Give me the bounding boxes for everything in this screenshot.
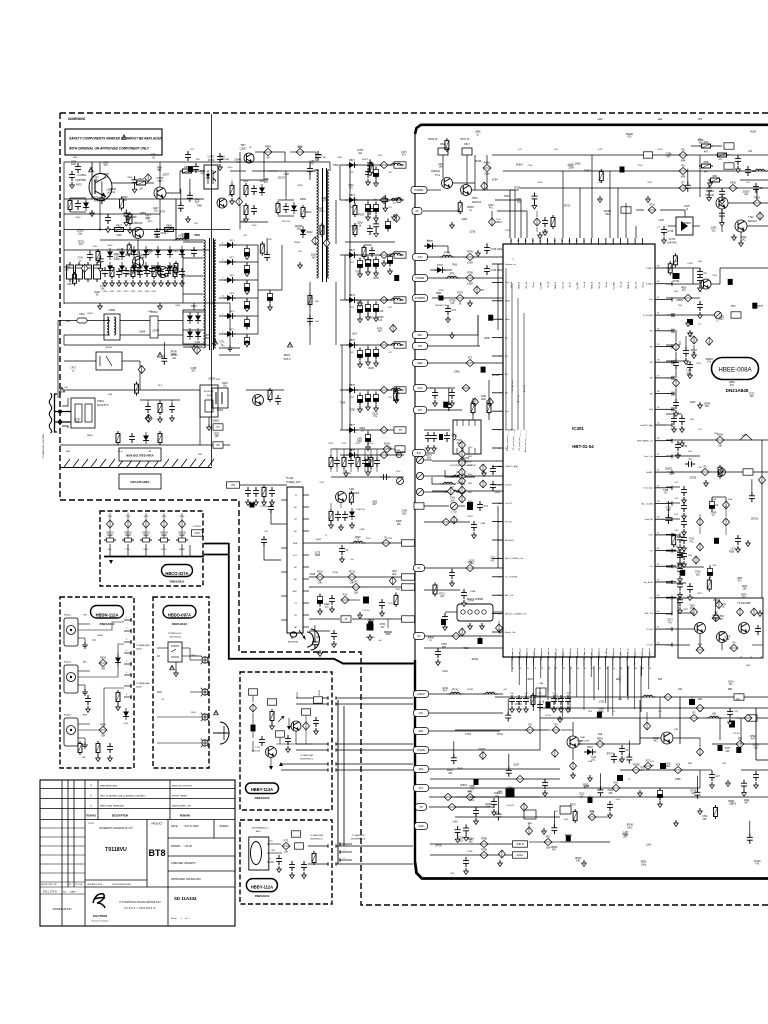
svg-text:R101: R101	[317, 570, 323, 573]
svg-text:H_drive_out: H_drive_out	[547, 648, 550, 659]
svg-text:ZD463: ZD463	[235, 160, 243, 162]
svg-text:R12: R12	[343, 593, 348, 596]
svg-text:50: 50	[657, 485, 660, 487]
svg-text:ZD499: ZD499	[626, 134, 634, 136]
svg-text:6: 6	[332, 767, 333, 769]
svg-text:R735: R735	[377, 329, 383, 331]
svg-text:RCA-S: RCA-S	[64, 614, 71, 617]
svg-text:SH702: SH702	[297, 692, 299, 698]
svg-text:B.OUT: B.OUT	[505, 485, 512, 487]
svg-text:C810: C810	[103, 291, 109, 293]
svg-text:L9A: L9A	[678, 688, 683, 691]
extra labels round4	[428, 119, 740, 736]
svg-text:R215: R215	[368, 368, 374, 370]
svg-text:1K: 1K	[359, 225, 362, 227]
svg-text:C617: C617	[725, 748, 731, 750]
transistor T843	[158, 267, 169, 278]
svg-text:C242: C242	[568, 165, 574, 167]
bottom wires y860	[352, 817, 610, 860]
bottom cluster ladder	[536, 682, 546, 704]
svg-text:D801: D801	[176, 305, 182, 307]
svg-text:8: 8	[126, 694, 127, 696]
tuner left pins	[281, 500, 287, 620]
svg-text:VOL+: VOL+	[125, 549, 131, 551]
svg-text:R108: R108	[94, 292, 100, 294]
svg-text:REMARK: REMARK	[180, 815, 191, 818]
svg-text:C430: C430	[665, 764, 671, 766]
texture cluster 11	[435, 682, 761, 867]
feedback parts	[345, 200, 395, 242]
hbby112 parts	[276, 831, 316, 879]
record row	[43, 891, 76, 894]
svg-text:10K: 10K	[450, 500, 455, 502]
svg-text:Vp_FBK: Vp_FBK	[540, 281, 542, 289]
svg-text:C261: C261	[666, 507, 672, 509]
svg-text:9: 9	[591, 241, 592, 243]
svg-text:C155: C155	[396, 471, 402, 473]
svg-text:3: 3	[222, 260, 224, 262]
svg-text:C813: C813	[124, 291, 130, 293]
svg-text:Blank_Out: Blank_Out	[505, 631, 516, 634]
svg-text:EW_Out: EW_Out	[645, 612, 654, 615]
right rail 240	[666, 230, 700, 240]
hbdn jk label	[92, 635, 150, 689]
svg-text:JP70: JP70	[449, 273, 455, 276]
svg-text:AGC: AGC	[293, 590, 298, 593]
svg-text:DRAWN: DRAWN	[171, 845, 181, 848]
svg-text:15: 15	[546, 241, 548, 243]
svg-text:5K6: 5K6	[94, 200, 99, 202]
svg-text:D937: D937	[373, 278, 379, 280]
psu rail y445	[60, 444, 230, 446]
svg-text:JP107: JP107	[165, 283, 172, 285]
svg-text:Audio_mute_out________: Audio_mute_out________	[524, 429, 527, 452]
svg-text:L509: L509	[205, 335, 211, 337]
svg-text:R151: R151	[329, 443, 335, 445]
svg-text:L895: L895	[737, 578, 743, 580]
hbdo led wires	[157, 648, 201, 743]
svg-text:D916: D916	[587, 746, 593, 749]
svg-text:SD 11A334: SD 11A334	[174, 896, 197, 901]
svg-text:HBEE-008A, HBBA-06A: HBEE-008A, HBBA-06A	[100, 805, 124, 808]
bus vertical	[228, 543, 230, 659]
fuse F801	[66, 314, 87, 323]
texture cluster 13	[451, 709, 760, 858]
svg-text:R159: R159	[457, 768, 463, 770]
svg-text:L80: L80	[64, 387, 68, 389]
svg-text:P.T.HARTONO ISTANA TEKNOLOGI: P.T.HARTONO ISTANA TEKNOLOGI	[119, 901, 160, 904]
psu line y170 left	[64, 170, 92, 189]
svg-text:Q712: Q712	[667, 620, 673, 622]
tp4 row	[429, 769, 520, 788]
svg-text:Q996: Q996	[351, 226, 357, 228]
svg-text:NC: NC	[650, 331, 654, 333]
svg-text:C718: C718	[667, 230, 673, 233]
svg-text:L988: L988	[103, 163, 109, 165]
svg-text:JP757: JP757	[74, 419, 81, 421]
svg-text:1n: 1n	[237, 162, 240, 164]
svg-text:C82: C82	[298, 251, 303, 253]
hbdn d001	[123, 708, 129, 725]
psu extra caps top	[185, 149, 199, 173]
border tag SW	[413, 343, 428, 350]
svg-text:Hsv_Out: Hsv_Out	[644, 455, 653, 458]
cap CX801	[150, 311, 183, 338]
isolation dashed boundary (step)	[60, 500, 768, 905]
svg-text:ZD711: ZD711	[78, 241, 85, 243]
svg-text:R: R	[269, 859, 271, 861]
svg-text:18: 18	[525, 241, 527, 243]
svg-text:S801: S801	[66, 451, 72, 453]
svg-text:R826: R826	[681, 287, 687, 289]
texture cluster 15	[667, 478, 755, 634]
svg-text:R508: R508	[728, 801, 734, 803]
svg-text:R733: R733	[380, 624, 386, 626]
svg-text:1n: 1n	[499, 633, 502, 635]
svg-text:IC801: IC801	[80, 174, 87, 177]
svg-text:SDA: SDA	[419, 768, 424, 771]
hbby113 vtext	[297, 690, 321, 698]
svg-text:D164: D164	[494, 793, 500, 795]
svg-text:R73: R73	[284, 839, 289, 842]
svg-text:100R: 100R	[568, 167, 574, 169]
svg-text:C3B: C3B	[690, 419, 694, 421]
hbby113 extra parts	[285, 697, 323, 753]
wires top cluster	[423, 155, 492, 211]
svg-text:R.OUT: R.OUT	[505, 521, 512, 523]
bottom rail	[64, 302, 230, 304]
svg-text:R30: R30	[678, 305, 683, 307]
svg-text:56: 56	[657, 391, 660, 393]
svg-text:L904: L904	[319, 211, 325, 213]
svg-text:R675: R675	[76, 185, 82, 187]
HBBY113 badge	[246, 783, 279, 800]
svg-text:T846: T846	[125, 254, 131, 257]
svg-text:52: 52	[657, 454, 660, 456]
svg-text:V_ramp_gen: V_ramp_gen	[554, 648, 557, 659]
svg-text:R561: R561	[583, 784, 589, 786]
svg-text:4K7: 4K7	[744, 803, 749, 805]
svg-text:4K7: 4K7	[698, 143, 703, 145]
psu vertical 176	[92, 162, 176, 240]
svg-text:T847: T847	[240, 145, 246, 147]
svg-text:R161: R161	[396, 589, 402, 591]
svg-text:D951: D951	[360, 428, 366, 430]
res R516	[483, 155, 491, 190]
svg-text:CVin: CVin	[648, 535, 653, 537]
tuner bt row	[309, 616, 415, 642]
svg-text:470: 470	[552, 850, 557, 852]
svg-text:2: 2	[126, 628, 127, 630]
svg-text:5K6: 5K6	[457, 443, 462, 445]
jumper J8 tag	[213, 442, 223, 448]
bottom rail 708	[540, 705, 768, 726]
transistor T702k	[735, 216, 758, 232]
svg-text:R3: R3	[703, 465, 707, 468]
svg-text:JP196: JP196	[475, 161, 482, 163]
bottom extra rails	[495, 694, 768, 706]
right bottom rows3	[455, 797, 768, 821]
svg-text:NC: NC	[505, 374, 509, 376]
sheet text	[171, 917, 189, 920]
dashed join keyboard-main	[203, 536, 205, 556]
cross boundary wires hbby112	[336, 696, 413, 865]
svg-text:ZM41SF: ZM41SF	[133, 222, 143, 225]
svg-text:C803: C803	[252, 225, 258, 227]
primary/secondary boundary line	[211, 114, 213, 466]
svg-text:Monitor_out/HSE_Out: Monitor_out/HSE_Out	[505, 612, 527, 615]
svg-text:3: 3	[344, 858, 345, 860]
svg-text:a9V: a9V	[718, 159, 722, 161]
rail1 res	[679, 148, 687, 162]
psu extra transistor T844	[217, 195, 233, 208]
svg-text:POWER: POWER	[416, 278, 425, 280]
svg-text:22p: 22p	[111, 192, 116, 194]
svg-text:NC: NC	[294, 579, 297, 581]
svg-text:R9A5: R9A5	[597, 737, 604, 740]
svg-text:59: 59	[657, 344, 660, 346]
svg-text:NC: NC	[505, 393, 509, 395]
svg-text:Q191: Q191	[481, 396, 487, 398]
svg-text:51: 51	[657, 470, 660, 472]
svg-text:41: 41	[657, 627, 660, 629]
svg-text:100n: 100n	[93, 180, 99, 182]
HBDN dashed box	[60, 597, 134, 768]
svg-text:2K2: 2K2	[742, 240, 747, 242]
svg-text:FBP_MASK_out: FBP_MASK_out	[637, 440, 653, 443]
svg-text:F801: F801	[79, 314, 85, 316]
svg-text:C90: C90	[510, 693, 513, 695]
bottom rails extra	[455, 688, 700, 808]
psu rail y390	[64, 389, 200, 391]
svg-text:R370: R370	[698, 593, 704, 595]
T845 C3807 lbl	[240, 145, 254, 163]
svg-text:C87: C87	[388, 307, 393, 309]
opamp IC701	[667, 217, 700, 245]
svg-text:JP168: JP168	[626, 825, 633, 827]
svg-text:D234: D234	[728, 682, 734, 684]
svg-text:BT8: BT8	[148, 848, 165, 858]
right col trans T303	[700, 268, 720, 289]
rail3 parts	[708, 175, 768, 193]
svg-text:100n: 100n	[71, 164, 77, 166]
svg-text:33K: 33K	[312, 257, 317, 259]
hbdn resistors	[96, 656, 121, 761]
svg-text:3: 3	[332, 741, 333, 743]
svg-text:D241: D241	[742, 586, 748, 588]
svg-text:ZD853: ZD853	[665, 469, 673, 471]
svg-text:JP202: JP202	[575, 858, 582, 860]
svg-text:C2A4: C2A4	[470, 590, 476, 593]
svg-text:T706: T706	[577, 741, 583, 743]
svg-text:XT301: XT301	[672, 280, 680, 283]
svg-text:BKin(SC): BKin(SC)	[505, 540, 514, 542]
svg-text:R71: R71	[468, 356, 473, 359]
tuner left wires	[261, 503, 281, 560]
svg-text:R829: R829	[174, 251, 180, 253]
svg-text:47u: 47u	[707, 362, 712, 364]
svg-text:L951: L951	[719, 316, 725, 318]
svg-text:C131: C131	[388, 603, 393, 605]
svg-text:R371: R371	[684, 609, 690, 611]
svg-text:2: 2	[90, 794, 92, 798]
svg-text:1K: 1K	[96, 295, 99, 297]
svg-text:CX80: CX80	[147, 311, 153, 313]
svg-text:u013: u013	[616, 799, 621, 801]
svg-text:Q704: Q704	[159, 211, 165, 213]
wire opto	[194, 170, 204, 172]
svg-text:ZD519: ZD519	[550, 847, 558, 849]
svg-text:D872: D872	[230, 275, 236, 277]
border tag extras	[414, 385, 471, 414]
svg-text:ZD842: ZD842	[516, 165, 524, 167]
transistor T847	[154, 177, 166, 199]
svg-text:C34: C34	[674, 530, 679, 532]
svg-text:7: 7	[126, 683, 127, 685]
svg-text:Q435: Q435	[575, 164, 581, 166]
svg-text:6: 6	[126, 672, 127, 674]
svg-text:D159: D159	[372, 413, 378, 415]
svg-text:6R8: 6R8	[681, 160, 686, 163]
right bottom rows2	[574, 763, 768, 788]
svg-text:47u: 47u	[682, 290, 687, 292]
svg-text:TN058: TN058	[632, 763, 640, 766]
top rail 1	[492, 154, 768, 156]
svg-text:C36: C36	[712, 565, 717, 567]
svg-text:C151: C151	[342, 443, 348, 445]
svg-text:B-IN: B-IN	[417, 453, 422, 455]
cross boundary wires hbby113	[336, 698, 413, 770]
svg-text:R3: R3	[732, 641, 736, 644]
svg-text:16M: 16M	[698, 261, 702, 263]
svg-text:GA-2R: GA-2R	[136, 686, 142, 689]
key resistors	[107, 513, 186, 534]
svg-text:JP933: JP933	[460, 785, 467, 787]
svg-text:Bus_sel: Bus_sel	[524, 384, 526, 392]
psu misc wires	[200, 180, 240, 445]
update until row	[41, 883, 132, 886]
svg-text:RCA-S: RCA-S	[64, 714, 71, 717]
svg-text:49: 49	[657, 501, 660, 503]
svg-text:C27: C27	[715, 775, 720, 778]
ac wires	[58, 321, 110, 429]
svg-text:5K: 5K	[349, 473, 352, 475]
optocoupler IC802	[204, 156, 218, 190]
svg-text:C706 100p: C706 100p	[490, 248, 502, 251]
texture cluster 9	[310, 451, 408, 649]
svg-text:C7: C7	[698, 324, 702, 326]
to hbdn con1	[340, 835, 366, 862]
if agc top rail	[331, 442, 405, 456]
svg-text:R774: R774	[426, 455, 432, 457]
svg-text:HBDO-097A: HBDO-097A	[168, 612, 191, 617]
svg-text:JP702: JP702	[444, 252, 451, 255]
svg-text:L414: L414	[688, 333, 694, 335]
filter component row	[102, 265, 185, 287]
svg-text:DN21A845: DN21A845	[726, 388, 749, 393]
svg-text:IF: IF	[295, 495, 298, 497]
svg-text:G.OUT: G.OUT	[505, 503, 513, 505]
svg-text:R91: R91	[546, 835, 551, 838]
main board border (bottom, thick)	[415, 862, 768, 879]
company text	[119, 901, 160, 910]
svg-text:11: 11	[222, 296, 225, 298]
svg-text:D91: D91	[650, 761, 655, 763]
svg-text:C94: C94	[566, 693, 569, 695]
svg-text:58: 58	[657, 360, 660, 362]
svg-text:1K: 1K	[386, 454, 389, 457]
svg-text:47u: 47u	[489, 208, 494, 210]
svg-text:CHECKED: CHECKED	[171, 862, 183, 865]
svg-text:IC803: IC803	[217, 410, 224, 412]
extra border tag mid	[413, 450, 426, 457]
svg-text:T134: T134	[591, 757, 597, 759]
svg-text:1N4148 C704: 1N4148 C704	[435, 305, 448, 307]
svg-text:4K7: 4K7	[720, 319, 725, 321]
svg-text:ABL_sense: ABL_sense	[526, 648, 529, 658]
TL431 group	[246, 388, 284, 406]
svg-text:C996: C996	[402, 511, 408, 513]
svg-text:C1A5: C1A5	[359, 528, 365, 531]
svg-text:C302: C302	[674, 291, 680, 293]
right pin stub caps all	[666, 266, 672, 647]
output rail extras	[350, 163, 403, 411]
svg-text:R504: R504	[658, 149, 664, 151]
kb chain stack	[459, 441, 473, 503]
psu bottom parts	[116, 424, 223, 445]
rail1 parts	[691, 141, 753, 155]
svg-text:3: 3	[635, 241, 636, 243]
bottom drops extra	[630, 697, 730, 751]
svg-text:T203: T203	[686, 371, 692, 373]
headphone jack	[249, 827, 282, 871]
svg-text:4K7: 4K7	[195, 202, 200, 204]
svg-text:4K7: 4K7	[704, 150, 709, 153]
opto2	[212, 388, 228, 412]
dvss circ	[666, 312, 741, 337]
svg-text:C91: C91	[524, 693, 527, 695]
svg-text:C176: C176	[401, 152, 407, 154]
warning text box	[65, 129, 162, 155]
svg-text:H_drive_out: H_drive_out	[583, 648, 586, 659]
svg-text:D275: D275	[315, 553, 321, 555]
texture cluster 2	[340, 150, 407, 443]
texture cluster 3	[71, 330, 229, 438]
svg-text:10K: 10K	[215, 436, 220, 438]
svg-text:WITH ORIGINAL OR APPROVED COMP: WITH ORIGINAL OR APPROVED COMPONENT ONLY	[69, 147, 150, 151]
svg-text:2K2: 2K2	[459, 840, 464, 842]
svg-text:L437: L437	[623, 832, 629, 834]
svg-text:D493: D493	[454, 372, 460, 374]
svg-text:KRC110: KRC110	[705, 194, 715, 197]
svg-text:D803: D803	[108, 245, 114, 247]
svg-text:JP7A2: JP7A2	[451, 689, 459, 692]
svg-text:Cin: Cin	[650, 566, 654, 568]
svg-text:22p: 22p	[698, 291, 702, 293]
svg-text:10K: 10K	[743, 589, 748, 591]
svg-text:10K: 10K	[354, 592, 359, 595]
svg-text:RL8: RL8	[158, 385, 163, 387]
svg-text:R827: R827	[116, 224, 122, 227]
svg-text:Y4a 503: Y4a 503	[506, 805, 514, 807]
resistor R829v	[174, 261, 178, 275]
svg-text:1n: 1n	[153, 285, 155, 287]
bottom long rail	[560, 737, 768, 760]
svg-text:C861: C861	[348, 185, 354, 187]
hbby113 denser	[287, 709, 319, 744]
svg-text:2K2: 2K2	[191, 371, 196, 373]
svg-text:60: 60	[657, 328, 660, 330]
